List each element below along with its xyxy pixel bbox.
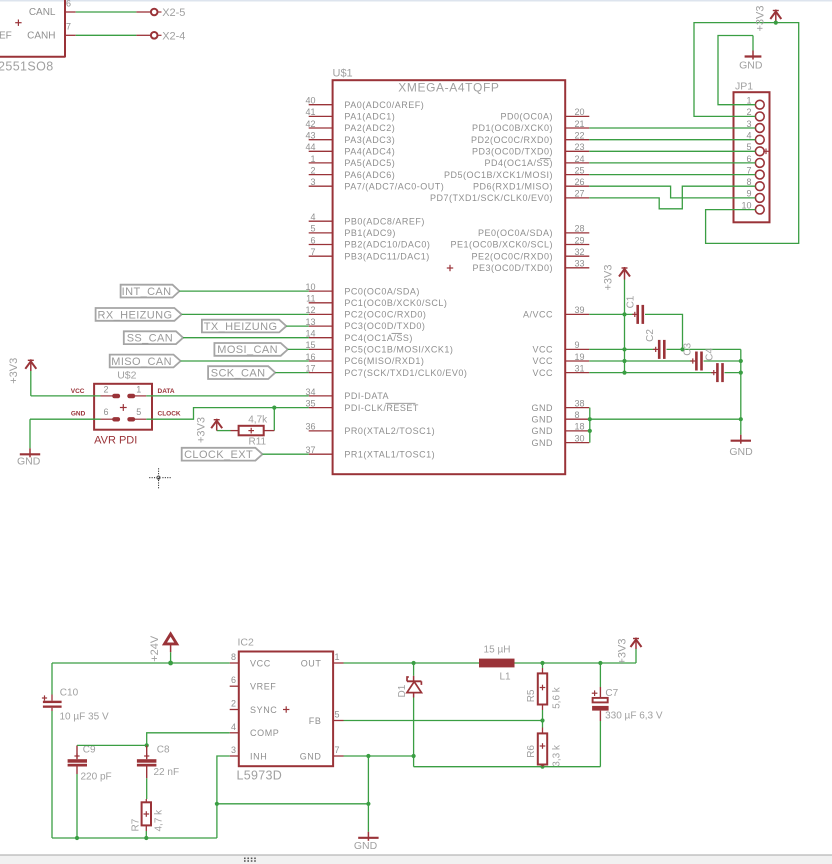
svg-text:40: 40 [305,96,315,106]
svg-text:GND: GND [532,438,554,448]
svg-text:36: 36 [305,422,315,432]
svg-text:PE3(OC0D/TXD0): PE3(OC0D/TXD0) [472,263,553,273]
svg-text:C2: C2 [645,329,656,342]
svg-text:5: 5 [136,407,141,417]
svg-text:PC0(OC0A/SDA): PC0(OC0A/SDA) [344,286,420,296]
svg-text:AVR PDI: AVR PDI [94,435,137,447]
svg-text:PR1(XTAL1/TOSC1): PR1(XTAL1/TOSC1) [344,449,435,459]
svg-text:+3V3: +3V3 [196,417,208,443]
svg-text:DATA: DATA [158,388,175,395]
svg-text:SCK_CAN: SCK_CAN [211,368,266,380]
svg-text:18: 18 [575,422,585,432]
svg-text:12: 12 [305,305,315,315]
svg-text:27: 27 [575,189,585,199]
svg-text:3: 3 [310,177,315,187]
svg-text:VCC: VCC [71,388,85,395]
svg-text:X2-5: X2-5 [162,7,185,19]
svg-text:X2-4: X2-4 [162,30,185,42]
svg-text:CANH: CANH [27,30,55,41]
svg-text:TX_HEIZUNG: TX_HEIZUNG [204,321,278,333]
svg-text:42: 42 [305,119,315,129]
svg-text:GND: GND [532,403,554,413]
svg-text:330 µF 6,3 V: 330 µF 6,3 V [605,710,663,721]
svg-text:PDI-CLK/RESET: PDI-CLK/RESET [344,403,419,413]
svg-text:INH: INH [250,751,267,761]
svg-text:1: 1 [136,385,141,395]
svg-text:7: 7 [66,21,71,31]
svg-text:15 µH: 15 µH [484,645,511,656]
svg-text:U$2: U$2 [117,370,136,382]
svg-text:PA6(ADC6): PA6(ADC6) [344,170,395,180]
svg-text:25: 25 [575,165,585,175]
svg-text:PA3(ADC3): PA3(ADC3) [344,135,395,145]
svg-text:4: 4 [231,722,236,732]
svg-text:2551SO8: 2551SO8 [0,59,54,73]
svg-text:+3V3: +3V3 [754,6,766,32]
svg-text:L1: L1 [499,671,511,682]
svg-text:PB0(ADC8/AREF): PB0(ADC8/AREF) [344,216,425,226]
svg-text:PC1(OC0B/XCK0/SCL): PC1(OC0B/XCK0/SCL) [344,298,447,308]
svg-text:+3V3: +3V3 [617,639,629,665]
svg-text:GND: GND [300,751,322,761]
svg-text:OUT: OUT [301,658,322,668]
svg-text:22: 22 [575,131,585,141]
svg-text:20: 20 [575,107,585,117]
svg-text:D1: D1 [397,684,408,697]
svg-text:R5: R5 [526,689,537,702]
svg-text:A/VCC: A/VCC [523,310,553,320]
svg-text:PB3(ADC11/DAC1): PB3(ADC11/DAC1) [344,251,429,261]
svg-text:GND: GND [17,456,41,468]
svg-text:+3V3: +3V3 [8,358,20,384]
svg-text:7: 7 [335,745,340,755]
svg-text:SS_CAN: SS_CAN [127,333,173,345]
svg-text:PE0(OC0A/SDA): PE0(OC0A/SDA) [478,228,553,238]
svg-text:PC3(OC0D/TXD0): PC3(OC0D/TXD0) [344,321,425,331]
svg-text:10 µF 35 V: 10 µF 35 V [60,711,109,722]
svg-text:COMP: COMP [250,728,279,738]
svg-text:4: 4 [310,212,315,222]
svg-text:R11: R11 [248,436,266,447]
svg-text:29: 29 [575,235,585,245]
svg-text:38: 38 [575,398,585,408]
svg-text:1: 1 [746,96,751,106]
svg-text:PA2(ADC2): PA2(ADC2) [344,123,395,133]
svg-text:30: 30 [575,433,585,443]
svg-text:MOSI_CAN: MOSI_CAN [217,344,278,356]
svg-text:VREF: VREF [250,682,276,692]
svg-text:39: 39 [575,305,585,315]
svg-text:2: 2 [746,107,751,117]
svg-text:C7: C7 [605,688,618,699]
svg-text:VCC: VCC [250,658,271,668]
svg-text:CLOCK_EXT: CLOCK_EXT [184,449,253,461]
svg-text:RX_HEIZUNG: RX_HEIZUNG [98,309,173,321]
svg-text:13: 13 [305,317,315,327]
svg-text:1: 1 [310,154,315,164]
svg-text:6: 6 [310,235,315,245]
svg-text:1: 1 [335,652,340,662]
svg-text:26: 26 [575,177,585,187]
svg-text:CANL: CANL [29,7,56,18]
svg-text:GND: GND [532,414,554,424]
svg-text:6: 6 [66,0,71,8]
svg-text:2: 2 [310,165,315,175]
svg-text:VCC: VCC [532,368,553,378]
svg-text:FB: FB [309,716,322,726]
svg-text:6: 6 [103,407,108,417]
svg-text:+24V: +24V [149,635,161,662]
svg-text:C10: C10 [60,688,79,699]
svg-text:PA4(ADC4): PA4(ADC4) [344,147,395,157]
svg-text:PB2(ADC10/DAC0): PB2(ADC10/DAC0) [344,240,430,250]
svg-text:7: 7 [310,247,315,257]
svg-text:24: 24 [575,154,585,164]
svg-text:10: 10 [741,200,751,210]
svg-text:U$1: U$1 [333,68,353,80]
svg-text:EF: EF [0,30,12,41]
svg-text:6: 6 [231,675,236,685]
svg-text:PD1(OC0B/XCK0): PD1(OC0B/XCK0) [472,123,553,133]
svg-text:3,3 k: 3,3 k [552,744,563,767]
svg-text:R6: R6 [526,745,537,758]
svg-text:220 pF: 220 pF [81,772,112,783]
svg-text:28: 28 [575,224,585,234]
svg-text:C4: C4 [705,348,716,361]
svg-text:GND: GND [354,840,378,852]
svg-text:35: 35 [305,398,315,408]
svg-text:GND: GND [71,411,86,418]
svg-text:C1: C1 [625,295,636,308]
svg-text:PB1(ADC9): PB1(ADC9) [344,228,396,238]
svg-text:MISO_CAN: MISO_CAN [111,356,172,368]
svg-text:11: 11 [306,294,315,304]
svg-text:9: 9 [746,189,751,199]
svg-text:14: 14 [305,329,315,339]
svg-text:41: 41 [305,107,315,117]
svg-text:GND: GND [739,60,763,72]
svg-text:21: 21 [575,119,585,129]
svg-text:VCC: VCC [532,356,553,366]
svg-text:5: 5 [335,710,340,720]
svg-text:16: 16 [305,352,315,362]
svg-text:5,6 k: 5,6 k [552,686,563,709]
svg-text:2: 2 [231,699,236,709]
svg-text:VCC: VCC [532,345,553,355]
svg-text:8: 8 [575,410,580,420]
svg-text:XMEGA-A4TQFP: XMEGA-A4TQFP [398,81,499,95]
svg-text:8: 8 [231,652,236,662]
svg-text:37: 37 [305,445,315,455]
svg-text:INT_CAN: INT_CAN [122,286,172,298]
svg-text:10: 10 [305,282,315,292]
svg-text:PE1(OC0B/XCK0/SCL): PE1(OC0B/XCK0/SCL) [450,240,553,250]
svg-text:PA1(ADC1): PA1(ADC1) [344,112,395,122]
svg-text:PA7/(ADC7/AC0-OUT): PA7/(ADC7/AC0-OUT) [344,181,444,191]
svg-text:PD6(RXD1/MISO): PD6(RXD1/MISO) [473,181,553,191]
svg-text:SYNC: SYNC [250,705,277,715]
svg-text:43: 43 [305,131,315,141]
svg-text:PC5(OC1B/MOSI/XCK1): PC5(OC1B/MOSI/XCK1) [344,345,453,355]
svg-text:3: 3 [746,119,751,129]
svg-text:22 nF: 22 nF [154,767,180,778]
svg-text:7: 7 [746,165,751,175]
svg-text:PD7(TXD1/SCK/CLK0/EV0): PD7(TXD1/SCK/CLK0/EV0) [430,193,553,203]
svg-text:9: 9 [575,340,580,350]
svg-text:PC4(OC1A/SS): PC4(OC1A/SS) [344,333,413,343]
svg-text:GND: GND [729,446,753,458]
svg-text:PD5(OC1B/XCK1/MOSI): PD5(OC1B/XCK1/MOSI) [444,170,553,180]
svg-text:4,7 k: 4,7 k [154,809,165,832]
svg-text:33: 33 [575,259,585,269]
svg-text:2: 2 [103,385,108,395]
svg-text:5: 5 [746,142,751,152]
svg-text:C3: C3 [683,342,694,355]
svg-text:5: 5 [310,224,315,234]
svg-text:GND: GND [532,426,554,436]
svg-text:3: 3 [231,745,236,755]
svg-text:PD4(OC1A/SS): PD4(OC1A/SS) [484,158,553,168]
svg-text:19: 19 [575,352,585,362]
svg-text:+3V3: +3V3 [603,265,615,291]
svg-text:IC2: IC2 [238,637,255,649]
svg-text:15: 15 [305,340,315,350]
svg-text:32: 32 [575,247,585,257]
svg-text:PC7(SCK/TXD1/CLK0/EV0): PC7(SCK/TXD1/CLK0/EV0) [344,368,467,378]
svg-text:PD3(OC0D/TXD0): PD3(OC0D/TXD0) [472,147,553,157]
svg-text:PDI-DATA: PDI-DATA [344,391,389,401]
svg-text:C8: C8 [157,744,170,755]
svg-text:R7: R7 [131,818,142,831]
svg-text:CLOCK: CLOCK [158,411,181,418]
svg-text:4: 4 [746,131,751,141]
svg-text:31: 31 [575,363,585,373]
svg-text:44: 44 [305,142,315,152]
svg-text:PD2(OC0C/RXD0): PD2(OC0C/RXD0) [471,135,553,145]
svg-text:PC2(OC0C/RXD0): PC2(OC0C/RXD0) [344,310,426,320]
svg-text:PC6(MISO/RXD1): PC6(MISO/RXD1) [344,356,424,366]
svg-text:PE2(OC0C/RXD0): PE2(OC0C/RXD0) [471,251,553,261]
svg-text:23: 23 [575,142,585,152]
svg-text:PA5(ADC5): PA5(ADC5) [344,158,395,168]
svg-text:PA0(ADC0/AREF): PA0(ADC0/AREF) [344,100,424,110]
svg-text:17: 17 [305,363,315,373]
svg-text:JP1: JP1 [735,81,753,93]
svg-text:PR0(XTAL2/TOSC1): PR0(XTAL2/TOSC1) [344,426,435,436]
svg-text:L5973D: L5973D [237,769,283,783]
svg-text:4,7k: 4,7k [248,414,268,425]
svg-text:PD0(OC0A): PD0(OC0A) [500,112,553,122]
